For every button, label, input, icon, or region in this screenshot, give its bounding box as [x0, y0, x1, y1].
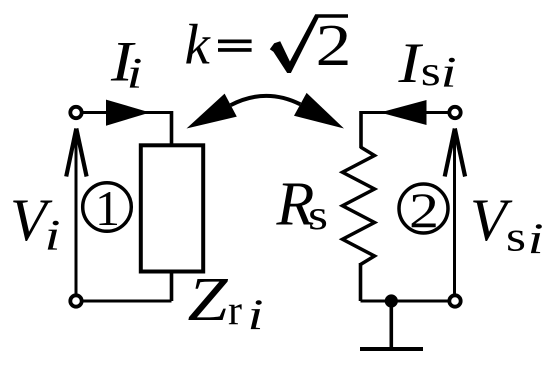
wire [359, 263, 363, 301]
label Vi [10, 187, 61, 260]
label Vsi [470, 187, 544, 263]
terminal bottom-right [449, 295, 460, 306]
terminal top-right [449, 107, 460, 118]
svg-text:k: k [185, 13, 212, 76]
wire [170, 111, 174, 144]
svg-text:2: 2 [316, 12, 352, 78]
current arrow I1 [106, 100, 150, 126]
svg-text:i: i [248, 292, 264, 339]
svg-text:i: i [45, 213, 61, 260]
current arrow I2 [380, 100, 427, 125]
voltage arrow Vsi [445, 129, 465, 294]
resistor Rs [343, 147, 375, 265]
svg-text:s: s [421, 49, 441, 95]
label Ii [110, 31, 143, 98]
label Isi [397, 32, 456, 97]
svg-text:r: r [228, 288, 242, 334]
coupling arrowhead right [294, 93, 344, 129]
port node 1 [83, 180, 132, 236]
ground stub [389, 301, 393, 347]
svg-text:1: 1 [95, 180, 120, 236]
wire port1 bottom [83, 300, 172, 303]
wire [170, 271, 174, 302]
svg-text:s: s [506, 215, 526, 261]
ground bar [360, 347, 423, 351]
impedance box Zri [141, 145, 203, 271]
svg-text:2: 2 [409, 182, 439, 238]
equals sign [218, 40, 252, 52]
wire port2 top [361, 111, 448, 114]
coupling arrow arc [231, 96, 301, 105]
svg-text:i: i [441, 50, 457, 97]
svg-text:s: s [308, 193, 328, 239]
svg-text:i: i [127, 51, 143, 98]
wire [359, 111, 363, 148]
terminal bottom-left [70, 295, 81, 306]
svg-text:i: i [528, 216, 544, 263]
coupling arrowhead left [187, 94, 237, 129]
terminal top-left [70, 107, 81, 118]
label Zri [188, 266, 264, 339]
voltage arrow Vi [66, 129, 86, 294]
junction dot [385, 294, 398, 307]
wire port1 top [83, 111, 172, 114]
label Rs [276, 170, 329, 239]
radical sign [270, 14, 348, 73]
port node 2 [399, 182, 448, 238]
wire port2 bottom [361, 300, 449, 303]
svg-text:Z: Z [188, 266, 229, 334]
